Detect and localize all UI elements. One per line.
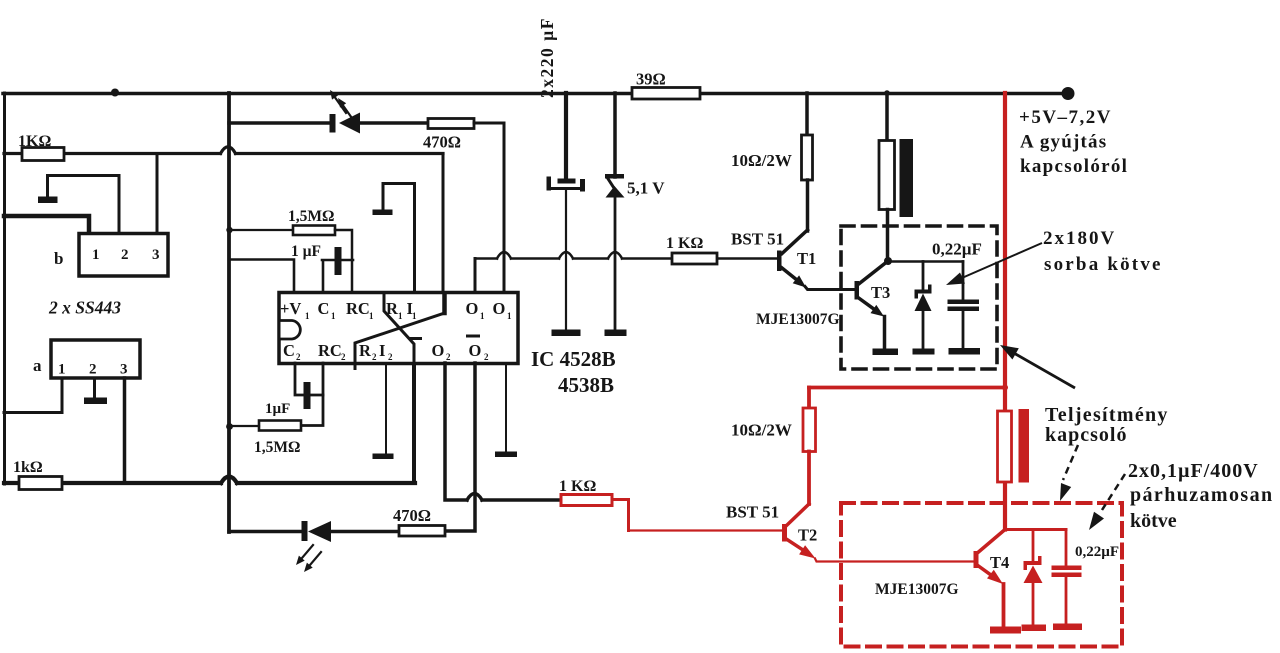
arrow to module corner (1012, 352, 1075, 388)
svg-text:IC 4528B: IC 4528B (531, 347, 616, 371)
wire T1 emitter to T3 base (805, 287, 855, 290)
svg-text:O: O (469, 341, 482, 360)
zener D protection red (1032, 530, 1035, 563)
LED D1 cathode bar (330, 114, 336, 133)
zener D 5.1V stem (613, 93, 617, 177)
wire vertical IC O pin (474, 259, 477, 293)
svg-text:0,22µF: 0,22µF (1075, 544, 1119, 560)
svg-text:10Ω/2W: 10Ω/2W (731, 421, 792, 440)
zener D 5.1V symbol (605, 174, 624, 179)
svg-text:1µF: 1µF (265, 401, 290, 417)
wire LED2 to 470 (331, 530, 399, 534)
svg-text:RC: RC (318, 341, 342, 360)
svg-text:b: b (54, 249, 63, 268)
svg-text:MJE13007G: MJE13007G (756, 311, 840, 328)
svg-text:2: 2 (484, 352, 489, 362)
svg-text:C: C (283, 341, 295, 360)
svg-text:kapcsolóról: kapcsolóról (1020, 156, 1128, 177)
svg-text:2: 2 (372, 352, 377, 362)
wire red main vertical (1003, 93, 1007, 530)
wire IC pin up from bottom row (412, 363, 416, 483)
svg-text:5,1 V: 5,1 V (627, 179, 665, 198)
svg-text:2: 2 (121, 247, 129, 263)
LED D1 wire from bus (229, 121, 330, 125)
svg-text:BST 51: BST 51 (726, 503, 779, 522)
svg-text:A gyújtás: A gyújtás (1020, 132, 1107, 153)
LED D2 emission arrows (302, 545, 313, 558)
ground cap red (1053, 624, 1082, 631)
arrow to 0.22uF black (955, 243, 1042, 281)
LED D2 cathode bar (302, 521, 308, 541)
svg-text:1kΩ: 1kΩ (13, 459, 43, 476)
svg-text:T4: T4 (990, 553, 1009, 572)
ground hook to IC R pin (383, 184, 415, 293)
svg-text:1 KΩ: 1 KΩ (666, 235, 703, 252)
svg-text:2: 2 (89, 362, 97, 378)
svg-text:39Ω: 39Ω (636, 70, 666, 89)
svg-text:+5V–7,2V: +5V–7,2V (1019, 107, 1112, 128)
ground for 2x220uF (552, 330, 581, 337)
svg-text:T1: T1 (797, 249, 816, 268)
wire IC output row to T1 base with hops (475, 252, 777, 259)
svg-text:1: 1 (331, 311, 336, 321)
IC crossed trigger lines (384, 293, 414, 363)
svg-text:1: 1 (507, 311, 512, 321)
svg-text:Teljesítmény: Teljesítmény (1045, 404, 1169, 426)
svg-text:T3: T3 (871, 283, 890, 302)
resistor R 1 KOhm red (561, 495, 612, 506)
wire T2 emitter to T4 base (815, 559, 973, 562)
svg-text:2: 2 (296, 352, 301, 362)
svg-text:MJE13007G: MJE13007G (875, 581, 959, 598)
svg-text:2x180V: 2x180V (1043, 228, 1116, 249)
svg-text:kötve: kötve (1130, 510, 1177, 532)
svg-text:1,5MΩ: 1,5MΩ (254, 439, 300, 456)
transistor Q T2 BST51 red (787, 504, 809, 525)
svg-text:sorba kötve: sorba kötve (1044, 254, 1163, 275)
svg-text:1: 1 (398, 311, 403, 321)
svg-text:1 KΩ: 1 KΩ (559, 478, 596, 495)
svg-text:O: O (466, 299, 479, 318)
svg-text:O: O (493, 299, 506, 318)
node supply terminal dot (1062, 87, 1075, 100)
svg-text:2x220 µF: 2x220 µF (537, 17, 557, 98)
svg-text:kapcsoló: kapcsoló (1045, 424, 1127, 446)
wire left border bus (3, 93, 6, 484)
wire sensor a pin1 (4, 378, 62, 413)
zener D 5.1V lower stem (614, 198, 617, 331)
wire LED1 to 470 (360, 121, 428, 125)
IC bottom row pin labels (283, 335, 489, 363)
wire red collector row (1005, 528, 1066, 531)
zener D protection black (922, 262, 925, 291)
IC top row pin labels (280, 299, 512, 321)
ground IC pin I2 (385, 363, 387, 454)
svg-text:1: 1 (480, 311, 485, 321)
transistor Q T3 MJE13007G (855, 281, 860, 300)
wire vertical distribution bus (227, 93, 231, 532)
node dot on top bus (111, 89, 119, 97)
wire collector row (888, 260, 963, 263)
dashed arrow to red box (1063, 445, 1078, 480)
svg-text:T2: T2 (798, 526, 817, 545)
ground zener black (913, 349, 935, 355)
sensor box b (79, 234, 168, 277)
wire bottom row with hop over bus (4, 477, 415, 484)
svg-text:2x0,1µF/400V: 2x0,1µF/400V (1128, 460, 1259, 482)
resistor R 1 KOhm mid (672, 253, 717, 264)
LED D1 emission arrows (334, 96, 346, 113)
ground for sensor b (38, 197, 58, 204)
capacitor C 1uF upper (229, 260, 294, 293)
ground T3 emitter (873, 349, 899, 356)
ground T4 emitter red (990, 627, 1021, 634)
transistor Q T4 MJE13007G red (974, 551, 979, 568)
svg-text:1: 1 (305, 311, 310, 321)
wire 470 to IC O1 pin (474, 123, 504, 292)
wire sensor b pin3 (156, 154, 159, 234)
svg-text:2: 2 (341, 352, 346, 362)
svg-text:3: 3 (152, 247, 160, 263)
capacitor C 2x220uF stem (564, 93, 568, 179)
svg-text:1: 1 (58, 362, 66, 378)
resistor R 1.5MOhm upper (229, 229, 293, 231)
svg-text:1: 1 (92, 247, 100, 263)
capacitor C 0.22uF red (1065, 530, 1068, 567)
wire top supply bus (3, 92, 1067, 96)
svg-text:1,5MΩ: 1,5MΩ (288, 208, 334, 225)
wire vertical to IC pin I1 (442, 154, 445, 293)
resistor R 470 Ohm top (428, 119, 474, 129)
IC notch (281, 321, 301, 340)
wire red branch to 10Ohm (809, 386, 1005, 390)
svg-text:1: 1 (412, 311, 417, 321)
svg-text:2: 2 (446, 352, 451, 362)
svg-text:2 x SS443: 2 x SS443 (48, 298, 121, 318)
sensor box a (51, 340, 140, 378)
ground for sensor a (93, 378, 96, 398)
ignition coil black primary (885, 93, 889, 141)
wire sensor b pin1 thick (4, 216, 89, 233)
svg-text:O: O (432, 341, 445, 360)
ground zener red (1022, 625, 1047, 632)
dashed box red module (841, 503, 1122, 647)
resistor R 1kOhm bottom-left (19, 477, 62, 490)
capacitor C 0.22uF black (962, 262, 965, 301)
svg-text:1 µF: 1 µF (291, 243, 321, 260)
svg-text:4538B: 4538B (558, 373, 614, 397)
LED D1 triangle (339, 113, 360, 134)
svg-text:I: I (379, 341, 385, 360)
LED D2 wire from bus (229, 530, 302, 534)
svg-text:470Ω: 470Ω (393, 506, 431, 525)
resistor R 1.5MOhm lower (302, 363, 323, 426)
dashed box black module (841, 226, 997, 369)
wire IC to red 1K with hop (445, 363, 561, 500)
svg-text:3: 3 (120, 362, 128, 378)
ground IC pin O2 (505, 363, 507, 452)
ground for zener (605, 330, 627, 337)
resistor R 39 Ohm on bus (632, 88, 700, 100)
ground cap black (949, 348, 981, 355)
resistor R 10Ohm/2W red (807, 388, 811, 409)
svg-text:R: R (359, 341, 372, 360)
svg-text:1: 1 (369, 311, 374, 321)
wire sensor b pin2 (48, 176, 120, 234)
capacitor C 2x220uF plates (558, 179, 576, 184)
resistor R 10Ohm/2W upper (805, 93, 809, 135)
wire sensor a pin3 (123, 378, 127, 483)
svg-text:+V: +V (280, 299, 301, 318)
wire 1K row with hop over vertical bus (4, 147, 443, 154)
svg-text:1KΩ: 1KΩ (18, 133, 51, 150)
svg-text:10Ω/2W: 10Ω/2W (731, 151, 792, 170)
wire red T2 base (629, 529, 783, 531)
ignition coil red primary (998, 411, 1012, 482)
svg-text:a: a (33, 356, 42, 375)
IC 4528B body (279, 293, 518, 364)
capacitor C 2x220uF lower stem (565, 191, 567, 331)
svg-text:470Ω: 470Ω (423, 133, 461, 152)
dashed arrow to red cap (1102, 474, 1125, 510)
svg-text:0,22µF: 0,22µF (932, 240, 982, 259)
svg-text:párhuzamosan: párhuzamosan (1130, 484, 1274, 506)
resistor R 1KOhm top-left (22, 148, 64, 161)
svg-text:2: 2 (388, 352, 393, 362)
svg-text:BST 51: BST 51 (731, 230, 784, 249)
LED D2 triangle (308, 521, 331, 542)
node T3 collector junction (884, 257, 892, 265)
svg-text:RC: RC (346, 299, 370, 318)
svg-text:C: C (318, 299, 330, 318)
resistor R 470 Ohm bottom (399, 526, 445, 537)
wire IC O pin down to 470 (445, 363, 475, 531)
capacitor C 1uF lower (295, 363, 323, 395)
transistor Q T1 BST51 (782, 230, 808, 254)
